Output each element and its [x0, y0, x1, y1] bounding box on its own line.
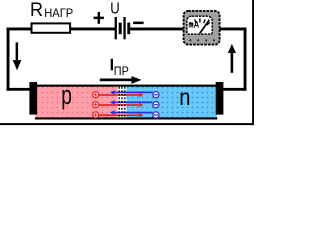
svg-text:n: n: [179, 84, 190, 110]
p region of semiconductor bar: [36, 86, 118, 118]
electron row 1: blue arrow: [110, 90, 153, 95]
wire top segment left (corner to R): [7, 28, 32, 31]
resistor R_НАГР: [32, 23, 71, 32]
electron row 2: blue arrow: [110, 100, 153, 105]
electrode left (p contact): [29, 82, 37, 115]
electron row 2: - carrier: [153, 102, 159, 108]
current arrow down (left branch): [13, 42, 22, 70]
battery minus sign: [133, 22, 143, 25]
hole row 3: red arrow: [99, 113, 144, 117]
battery U plate long 1: [115, 17, 117, 39]
wire top segment R to battery: [70, 28, 116, 31]
ammeter needle: [200, 20, 210, 34]
current arrow up (right branch): [228, 44, 236, 73]
electron row 3: blue arrow: [110, 110, 153, 115]
ammeter scale ticks: [190, 18, 210, 25]
hole row 1: red arrow: [99, 93, 144, 97]
battery plate short 2: [127, 23, 130, 35]
label НАГР subscript: [44, 6, 73, 20]
label R: [30, 0, 43, 21]
ammeter face: [187, 16, 212, 34]
wire right vertical: [244, 28, 247, 91]
label ПР subscript: [114, 65, 129, 78]
bar top border: [35, 85, 217, 87]
battery plus sign: [94, 12, 104, 24]
hole row 3: + carrier: [93, 112, 99, 118]
battery plate long 2: [123, 17, 125, 39]
svg-text:p: p: [61, 82, 72, 110]
label U: [110, 0, 120, 17]
wire top segment meter to right corner: [220, 28, 247, 31]
electron row 3: - carrier: [153, 112, 159, 118]
hole row 1: + carrier: [93, 92, 99, 98]
label n: [179, 84, 190, 110]
wire left bottom horizontal to p electrode: [7, 88, 30, 91]
electrode right (n contact): [216, 82, 224, 115]
n region of semiconductor bar: [127, 86, 217, 118]
wire left vertical: [7, 28, 10, 91]
label p: [61, 82, 72, 110]
label I (forward current): [111, 59, 113, 71]
wire right bottom horizontal to n electrode: [223, 88, 247, 91]
frame right border: [252, 0, 254, 125]
wire top segment battery to meter: [129, 28, 184, 31]
ammeter body: [184, 11, 220, 45]
label мА: [188, 20, 199, 31]
bar bottom border: [35, 117, 217, 119]
frame bottom border: [0, 123, 254, 125]
svg-text:мА: мА: [188, 20, 199, 31]
svg-text:НАГР: НАГР: [44, 6, 73, 20]
hole row 2: + carrier: [93, 102, 99, 108]
junction dashed line 2: [121, 87, 123, 118]
junction dashed line 1: [118, 87, 120, 118]
junction depletion strip: [118, 86, 127, 118]
hole row 2: red arrow: [99, 103, 144, 107]
svg-text:R: R: [30, 0, 43, 21]
ammeter screws: [189, 39, 215, 41]
electron row 1: - carrier: [153, 92, 159, 98]
battery plate short 1: [119, 23, 122, 35]
junction dashed line 3: [124, 87, 126, 118]
svg-text:ПР: ПР: [114, 65, 129, 78]
svg-text:U: U: [110, 0, 120, 17]
arrow I forward direction: [100, 76, 142, 84]
